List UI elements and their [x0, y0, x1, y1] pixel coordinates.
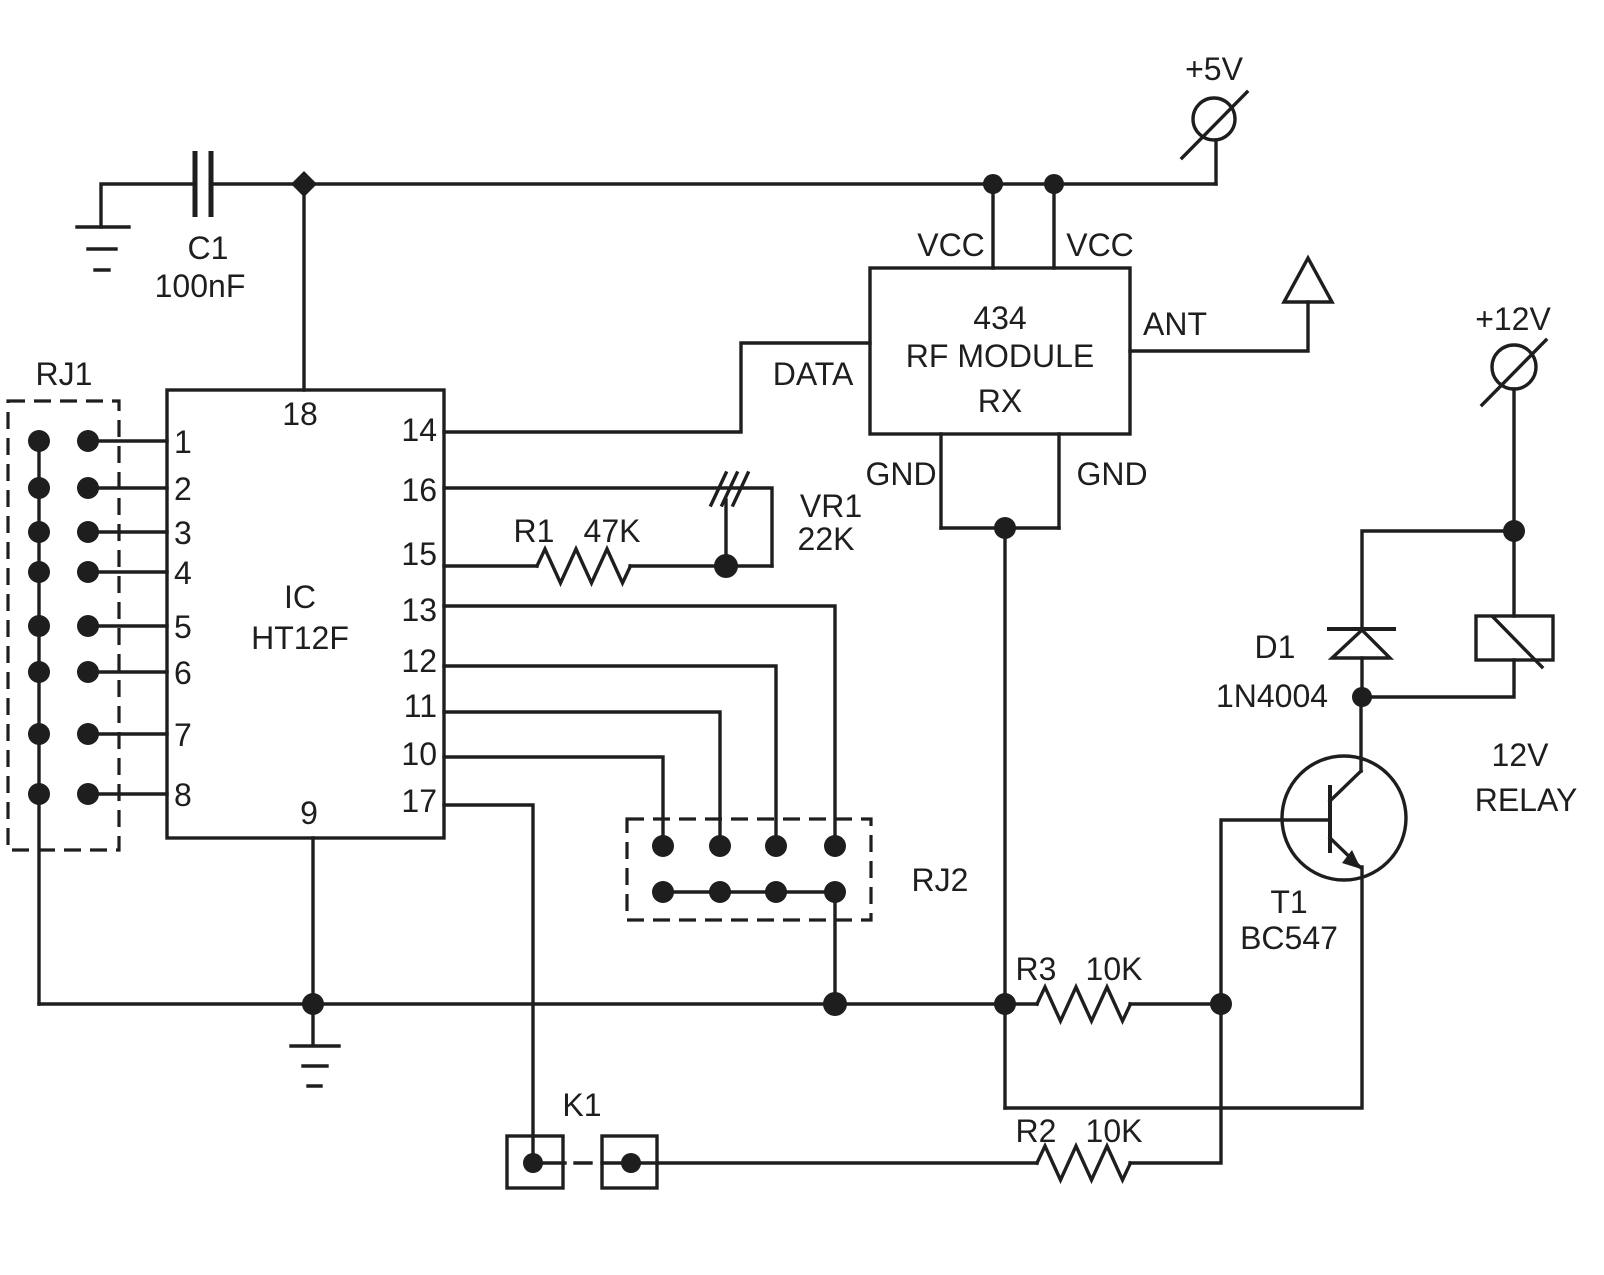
- junction D1 anode: [1352, 687, 1372, 707]
- K1 left contact dot: [523, 1153, 543, 1173]
- transistor T1 BC547: [1282, 756, 1406, 880]
- ground (top left): [77, 227, 129, 270]
- wire pin 16 to VR1: [444, 488, 772, 566]
- wire RJ1 to pin 8: [88, 792, 167, 795]
- wire GND tie: [941, 526, 1059, 529]
- switch K1 left box: [507, 1136, 563, 1188]
- svg-text:15: 15: [401, 536, 437, 572]
- svg-text:434: 434: [973, 300, 1026, 336]
- wire ground to emitter: [1005, 867, 1362, 1108]
- RJ1 left pin column wire: [37, 441, 40, 1004]
- wire pin 10 to RJ2: [444, 757, 663, 846]
- RJ1 pin dot row 7: [77, 723, 99, 745]
- wire D1 anode: [1360, 658, 1363, 697]
- wire pin 9 to ground: [311, 838, 314, 1004]
- svg-text:R2: R2: [1016, 1113, 1057, 1149]
- junction VCC left: [983, 174, 1003, 194]
- connector RJ1 dashed box: [8, 401, 119, 850]
- svg-text:10: 10: [401, 736, 437, 772]
- wire +12V to relay: [1512, 531, 1515, 616]
- svg-text:VCC: VCC: [1066, 227, 1134, 263]
- wire pin 15 to R1: [444, 564, 537, 567]
- K1 right contact dot: [621, 1153, 641, 1173]
- junction relay top: [1503, 520, 1525, 542]
- wire pin 12 to RJ2: [444, 666, 776, 846]
- K1 dashed link: [533, 1161, 631, 1164]
- RF module U2 box: [870, 268, 1130, 434]
- svg-text:4: 4: [174, 555, 192, 591]
- wire RJ2 to ground rail: [833, 892, 836, 1004]
- svg-text:100nF: 100nF: [155, 268, 246, 304]
- svg-text:12: 12: [401, 643, 437, 679]
- connector RJ2 dashed box: [627, 819, 871, 920]
- svg-text:5: 5: [174, 609, 192, 645]
- svg-text:RX: RX: [978, 383, 1022, 419]
- potentiometer VR1 wiper: [711, 473, 748, 566]
- svg-text:R1: R1: [514, 513, 555, 549]
- svg-text:RF MODULE: RF MODULE: [906, 338, 1094, 374]
- wire RJ1 to pin 3: [88, 530, 167, 533]
- power +12V: [1482, 340, 1546, 531]
- svg-text:13: 13: [401, 592, 437, 628]
- svg-text:16: 16: [401, 472, 437, 508]
- diode D1: [1329, 629, 1394, 658]
- wire GND left pin: [939, 434, 942, 528]
- svg-text:BC547: BC547: [1240, 920, 1338, 956]
- svg-text:GND: GND: [1076, 456, 1147, 492]
- svg-text:IC: IC: [284, 579, 316, 615]
- wire RJ1 to pin 1: [88, 439, 167, 442]
- wire base: [1221, 820, 1330, 1004]
- wire pin 11 to RJ2: [444, 712, 720, 846]
- RJ1 left pin dots: [28, 430, 50, 805]
- svg-text:3: 3: [174, 515, 192, 551]
- svg-text:1N4004: 1N4004: [1216, 678, 1328, 714]
- wire VCC right pin: [1052, 184, 1055, 268]
- RJ1 pin dot row 1: [77, 430, 99, 452]
- svg-text:RJ1: RJ1: [36, 356, 93, 392]
- svg-text:8: 8: [174, 777, 192, 813]
- capacitor C1: [195, 151, 211, 217]
- svg-text:12V: 12V: [1492, 737, 1550, 773]
- svg-text:10K: 10K: [1086, 1113, 1143, 1149]
- junction base node: [1210, 993, 1232, 1015]
- RJ1 pin dot row 2: [77, 477, 99, 499]
- svg-text:47K: 47K: [584, 513, 641, 549]
- svg-text:+5V: +5V: [1185, 51, 1243, 87]
- svg-text:1: 1: [174, 424, 192, 460]
- wire pin 13 to RJ2: [444, 606, 835, 846]
- IC U1 HT12F box: [167, 390, 444, 838]
- wire K1 to R2: [631, 1161, 1037, 1164]
- RJ1 pin dot row 8: [77, 783, 99, 805]
- svg-text:VR1: VR1: [800, 488, 862, 524]
- svg-text:18: 18: [282, 396, 318, 432]
- wire RJ1 to pin 2: [88, 486, 167, 489]
- svg-text:11: 11: [404, 688, 437, 724]
- svg-text:GND: GND: [865, 456, 936, 492]
- wire pin 18: [302, 184, 305, 390]
- RJ1 pin dot row 3: [77, 521, 99, 543]
- svg-text:HT12F: HT12F: [251, 620, 349, 656]
- svg-text:D1: D1: [1255, 629, 1296, 665]
- svg-text:DATA: DATA: [773, 356, 854, 392]
- junction VCC right: [1044, 174, 1064, 194]
- junction RJ2 ground: [823, 992, 847, 1016]
- svg-text:C1: C1: [188, 230, 229, 266]
- svg-text:RELAY: RELAY: [1475, 782, 1578, 818]
- wire ANT to antenna: [1130, 302, 1308, 351]
- svg-text:14: 14: [401, 412, 437, 448]
- junction VR1 wiper: [714, 554, 738, 578]
- svg-text:T1: T1: [1270, 884, 1307, 920]
- wire GND down to rail: [1003, 528, 1006, 1108]
- svg-text:7: 7: [174, 717, 192, 753]
- wire R3 to base node: [1130, 1002, 1221, 1005]
- junction GND: [994, 517, 1016, 539]
- RJ2 top pin dots: [652, 835, 846, 857]
- RJ1 pin dot row 6: [77, 661, 99, 683]
- wire pin 14 DATA: [444, 343, 870, 432]
- wire RJ1 to pin 5: [88, 624, 167, 627]
- svg-text:2: 2: [174, 471, 192, 507]
- svg-text:6: 6: [174, 655, 192, 691]
- wire D1 to relay bottom: [1362, 660, 1514, 697]
- svg-text:22K: 22K: [798, 521, 855, 557]
- wire R2 to base node: [1130, 1004, 1221, 1163]
- switch K1 right box: [602, 1136, 657, 1188]
- svg-text:VCC: VCC: [917, 227, 985, 263]
- svg-text:+12V: +12V: [1475, 301, 1551, 337]
- wire ground rail: [39, 1002, 1037, 1005]
- wire pin 17 to K1: [444, 805, 533, 1163]
- antenna: [1284, 258, 1332, 302]
- wire +5V rail: [214, 182, 1216, 185]
- wire VCC left pin: [991, 184, 994, 268]
- svg-text:ANT: ANT: [1143, 306, 1207, 342]
- ground (center): [291, 1004, 339, 1086]
- relay coil: [1476, 616, 1553, 667]
- junction GND rail: [994, 993, 1016, 1015]
- svg-text:10K: 10K: [1086, 951, 1143, 987]
- junction C1 / pin 18: [291, 171, 317, 197]
- wire RJ1 to pin 4: [88, 570, 167, 573]
- wire RJ1 to pin 7: [88, 732, 167, 735]
- wire GND right pin: [1057, 434, 1060, 528]
- RJ1 pin dot row 4: [77, 561, 99, 583]
- svg-text:RJ2: RJ2: [912, 862, 969, 898]
- power +5V: [1182, 92, 1247, 184]
- wire ground to C1 left plate: [101, 184, 192, 227]
- svg-text:R3: R3: [1016, 951, 1057, 987]
- resistor R2: [1037, 1146, 1131, 1180]
- wire R1 to VR1: [630, 564, 772, 567]
- resistor R1: [537, 549, 631, 583]
- wire D1 branch: [1362, 531, 1515, 629]
- resistor R3: [1037, 987, 1131, 1021]
- svg-text:K1: K1: [562, 1087, 601, 1123]
- RJ2 bottom row wire: [663, 890, 835, 893]
- junction pin 9 ground: [302, 993, 324, 1015]
- svg-text:9: 9: [300, 795, 318, 831]
- RJ2 bottom pin dots: [652, 881, 846, 903]
- RJ1 pin dot row 5: [77, 615, 99, 637]
- svg-text:17: 17: [401, 783, 437, 819]
- wire collector to D1: [1359, 697, 1362, 771]
- wire RJ1 to pin 6: [88, 670, 167, 673]
